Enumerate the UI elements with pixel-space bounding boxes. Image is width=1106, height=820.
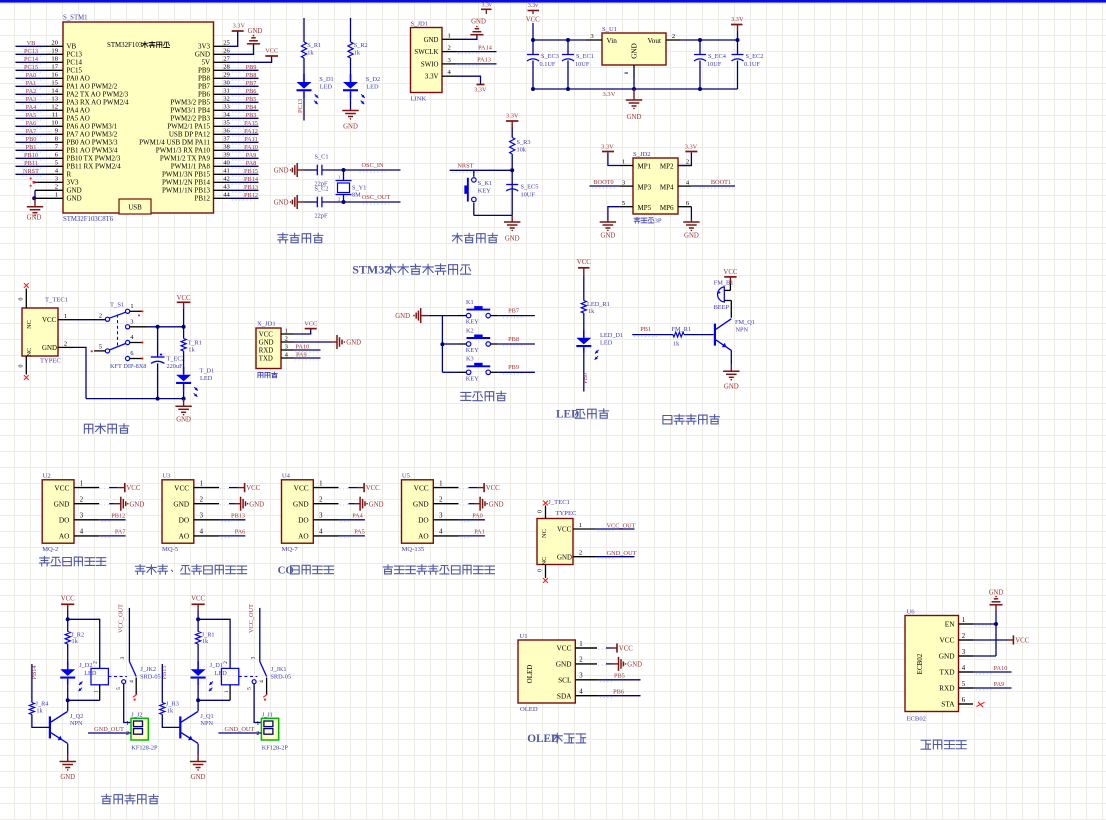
power symbol VCC of buzzer circuit (723, 269, 737, 284)
svg-text:PB6: PB6 (246, 88, 257, 95)
wire U6 VCC pin to VCC power (973, 626, 1013, 640)
S_STM1 inner pin name labels (67, 43, 211, 203)
svg-text:VCC: VCC (294, 483, 309, 492)
svg-text:12: 12 (51, 104, 58, 111)
pin 28 of S_STM1 with wire and net label PB9 (214, 64, 259, 73)
wire with net label PB0 below LED_D1 (582, 354, 589, 392)
svg-text:S_EC5: S_EC5 (521, 184, 539, 191)
svg-text:3.3V: 3.3V (506, 112, 519, 119)
pin 42 of S_STM1 with wire and net label PB14 (214, 176, 259, 185)
pin 10 (PA6 AO PWM3/1) of S_STM1 with wire and net label PA6 (16, 120, 64, 128)
svg-text:3.3V: 3.3V (474, 87, 487, 94)
svg-text:GND: GND (274, 200, 289, 207)
svg-text:35: 35 (223, 120, 230, 127)
svg-text:PA4 AO: PA4 AO (67, 107, 90, 115)
svg-text:S_EC3: S_EC3 (541, 53, 559, 60)
svg-text:1: 1 (962, 617, 965, 624)
wire with net label PB9 at K3 (498, 364, 535, 374)
connector S_JD1 (LINK) (411, 20, 456, 102)
pin 13 (PA3 RX AO PWM2/4) of S_STM1 with wire and net label PA3 (16, 96, 64, 104)
ground symbol GND at S_STM1 pin 26 (247, 28, 263, 44)
svg-text:AO: AO (418, 532, 429, 541)
wire switch pin3 to VCC node (130, 325, 186, 329)
svg-text:PA4: PA4 (352, 513, 363, 520)
svg-text:10UF: 10UF (707, 61, 722, 68)
svg-text:STM32F103C8T6: STM32F103C8T6 (63, 216, 114, 223)
svg-text:1: 1 (319, 480, 322, 487)
svg-text:STM32: STM32 (352, 263, 390, 277)
svg-text:TYPEC: TYPEC (556, 510, 577, 517)
svg-text:VCC: VCC (54, 483, 69, 492)
svg-text:PA2 TX AO PWM2/3: PA2 TX AO PWM2/3 (67, 91, 129, 99)
svg-text:OSC_IN: OSC_IN (361, 162, 383, 169)
svg-text:30: 30 (223, 80, 230, 87)
svg-text:DO: DO (418, 516, 429, 525)
svg-text:GND: GND (249, 501, 264, 508)
section title LED灯电路 (556, 409, 608, 421)
svg-text:38: 38 (223, 144, 230, 151)
svg-text:PA6: PA6 (26, 120, 37, 127)
svg-text:PC13: PC13 (67, 51, 83, 59)
capacitor S_C1 22pF (304, 154, 329, 188)
svg-text:PA1: PA1 (474, 529, 485, 536)
svg-text:MP3: MP3 (638, 183, 652, 191)
pin 38 of S_STM1 with wire and net label PA10 (214, 144, 259, 153)
svg-text:PB13: PB13 (231, 513, 245, 520)
wire with net label NRST (450, 162, 513, 172)
svg-text:J_Q1: J_Q1 (200, 713, 213, 720)
svg-text:17: 17 (51, 64, 58, 71)
svg-text:S_R2: S_R2 (354, 42, 368, 49)
svg-text:NC: NC (541, 557, 548, 566)
USB sub-box of S_STM1 (119, 199, 151, 214)
svg-text:PB12: PB12 (194, 195, 210, 203)
svg-text:27: 27 (223, 56, 230, 63)
power symbol VCC at U5 pin1 (484, 483, 500, 492)
wire U1 pin2 to ground (598, 664, 618, 665)
ground symbol GND of relay circuit (60, 755, 76, 781)
svg-text:GND: GND (27, 215, 42, 222)
svg-text:GND: GND (293, 499, 309, 508)
svg-text:U4: U4 (282, 473, 291, 480)
svg-text:28: 28 (223, 64, 230, 71)
svg-text:S_C2: S_C2 (315, 186, 329, 193)
ground symbol GND of button circuit (395, 308, 429, 323)
svg-text:STA: STA (941, 700, 955, 709)
svg-text:1: 1 (448, 32, 451, 39)
wire S_JD1 pin2 with net label PA14 (456, 44, 497, 53)
svg-text:16: 16 (51, 72, 58, 79)
wire S_C2 to crystal with net label OSC_OUT (322, 194, 401, 204)
section title 复位电路 (452, 233, 497, 243)
svg-text:U2: U2 (43, 473, 51, 480)
svg-text:VCC: VCC (61, 595, 75, 602)
sheet top border (0, 0, 1106, 3)
svg-text:3.3V: 3.3V (685, 143, 698, 150)
svg-text:J_TEC1: J_TEC1 (548, 499, 570, 506)
svg-text:KEY: KEY (478, 187, 491, 194)
svg-text:PWM2/1 PA15: PWM2/1 PA15 (167, 123, 210, 131)
section title 烟雾检测模块 (40, 556, 106, 565)
svg-text:VCC: VCC (304, 321, 317, 328)
svg-text:BOOT1: BOOT1 (711, 179, 731, 186)
svg-text:GND: GND (413, 499, 429, 508)
svg-text:GND: GND (627, 662, 642, 669)
svg-text:VCC: VCC (42, 317, 57, 324)
svg-text:DO: DO (59, 516, 70, 525)
svg-text:PA9: PA9 (296, 351, 307, 358)
wire X_JD1 pin1 to VCC power (294, 329, 311, 334)
svg-text:1: 1 (622, 159, 625, 166)
resistor FM_R1 1k (672, 326, 714, 347)
capacitor S_EC2 0.1UF (732, 40, 764, 89)
svg-text:GND_OUT: GND_OUT (225, 726, 255, 733)
svg-text:3: 3 (120, 656, 126, 659)
wire with net label VCC_OUT at J_TEC1 pin1 (596, 522, 636, 531)
svg-text:4: 4 (319, 529, 323, 536)
power symbol VCC of power circuit (177, 295, 191, 327)
pin 30 of S_STM1 with wire and net label PB7 (214, 80, 259, 89)
switch pin6 stub with no-connect dot (130, 357, 144, 359)
DIP switch T_S1 KFT DIP-8X6 (99, 301, 147, 370)
svg-text:PA9: PA9 (246, 152, 257, 159)
pin 39 of S_STM1 with wire and net label PA9 (214, 152, 259, 161)
wire U1 pin1 to VCC power (598, 648, 617, 649)
section title STM32单片机最小系统 (352, 263, 470, 277)
wire emitter of J_Q1 to ground (197, 744, 199, 755)
pin 14 (PA2 TX AO PWM2/3) of S_STM1 with wire and net label PA2 (16, 88, 64, 96)
svg-text:J_R3: J_R3 (166, 700, 179, 707)
wire with net label GND_OUT to J_J2 pin2 (88, 726, 131, 733)
wire with net label PA6 at U3 pin4 (219, 529, 245, 538)
svg-text:R: R (67, 171, 72, 179)
svg-text:6: 6 (962, 697, 966, 704)
svg-text:NPN: NPN (736, 326, 749, 333)
svg-text:GND: GND (191, 774, 206, 781)
svg-text:1: 1 (126, 721, 129, 727)
pin 9 (PA7 AO PWM3/2) of S_STM1 with wire and net label PA7 (16, 128, 64, 136)
wire with net label PB13 at U3 pin3 (219, 513, 245, 522)
svg-text:EN: EN (945, 620, 955, 629)
IC U6 bluetooth module ECB02 (905, 609, 973, 723)
svg-text:GND: GND (67, 187, 82, 195)
ground symbol GND of reset circuit (504, 215, 520, 242)
svg-text:KFT DIP-8X8: KFT DIP-8X8 (110, 363, 146, 370)
svg-text:PWM1/2 TX PA9: PWM1/2 TX PA9 (160, 155, 211, 163)
svg-text:NRST: NRST (457, 162, 473, 169)
ground symbol GND of relay circuit (190, 755, 206, 781)
svg-text:4: 4 (579, 689, 583, 696)
wire T_TEC1 pin2 to ground rail (73, 347, 86, 398)
svg-text:PA10: PA10 (244, 144, 258, 151)
svg-text:VCC: VCC (366, 485, 380, 492)
svg-text:S_JD2: S_JD2 (633, 151, 651, 158)
pin 36 of S_STM1 with wire and net label PA12 (214, 128, 259, 137)
svg-text:VCC_OUT: VCC_OUT (248, 604, 255, 633)
svg-text:VCC: VCC (414, 483, 429, 492)
connector J_TEC1 (TYPEC power out) (537, 499, 596, 565)
svg-text:2: 2 (64, 341, 67, 348)
ground symbol GND above bluetooth module (989, 590, 1004, 611)
svg-text:LED: LED (320, 83, 333, 90)
svg-text:K2: K2 (466, 327, 474, 334)
svg-text:2: 2 (80, 497, 84, 504)
svg-text:J_JK2: J_JK2 (140, 666, 156, 673)
svg-text:ECB02: ECB02 (907, 715, 926, 722)
svg-text:AO: AO (179, 532, 190, 541)
svg-text:2: 2 (686, 159, 689, 166)
power symbol VCC at U1 pin1 (617, 643, 633, 652)
pin 6 (PB10 TX PWM2/3) of S_STM1 with wire and net label PB10 (16, 152, 64, 160)
svg-text:S_EC1: S_EC1 (576, 53, 594, 60)
svg-text:KF128-2P: KF128-2P (131, 744, 158, 751)
svg-text:PB10: PB10 (24, 152, 38, 159)
capacitor T_EC2 220uF (151, 327, 185, 399)
section title 电源电路 (84, 424, 128, 434)
wire with net label PA10 at U6 TXD (973, 665, 1012, 674)
svg-text:VCC: VCC (1015, 638, 1029, 645)
svg-text:2: 2 (579, 657, 583, 664)
section title OLED屏显示 (527, 733, 585, 745)
svg-text:PA3: PA3 (26, 96, 37, 103)
svg-text:PB5: PB5 (246, 96, 257, 103)
svg-text:PA5 AO: PA5 AO (67, 115, 90, 123)
svg-text:NPN: NPN (70, 720, 83, 727)
svg-text:GND: GND (395, 313, 410, 320)
svg-text:PA5: PA5 (26, 112, 37, 119)
svg-text:GND: GND (601, 233, 616, 240)
svg-text:13: 13 (51, 96, 58, 103)
svg-text:S_K1: S_K1 (478, 180, 492, 187)
svg-text:NPN: NPN (200, 720, 213, 727)
wire with net label PB1 (632, 326, 673, 336)
svg-text:S_D1: S_D1 (319, 76, 333, 83)
wire S_C1 to crystal with net label OSC_IN (322, 162, 401, 172)
relay J_JK1 SRD-05 coil (221, 661, 291, 700)
svg-text:2: 2 (439, 497, 443, 504)
svg-text:PB12: PB12 (244, 192, 258, 199)
wire U2 pin1 to VCC power (100, 488, 124, 489)
svg-text:3P: 3P (655, 218, 662, 225)
svg-text:2: 2 (448, 45, 451, 52)
svg-text:10k: 10k (517, 147, 527, 154)
pin 31 of S_STM1 with wire and net label PB6 (214, 88, 259, 97)
svg-text:T_R1: T_R1 (188, 339, 202, 346)
svg-text:VCC_OUT: VCC_OUT (606, 522, 635, 529)
wire with net label PC13 below S_D1 (297, 98, 304, 121)
svg-text:1k: 1k (36, 707, 43, 714)
pin 43 of S_STM1 with wire and net label PB13 (214, 184, 259, 193)
wire with net label GND_OUT to J_J1 pin2 (218, 726, 261, 733)
svg-text:3.3v: 3.3v (528, 3, 538, 9)
svg-text:TYPEC: TYPEC (40, 358, 61, 365)
svg-text:0.1UF: 0.1UF (744, 61, 760, 68)
svg-text:GND_OUT: GND_OUT (607, 550, 637, 557)
svg-text:SRD-05: SRD-05 (270, 674, 291, 681)
wire and ground symbol GND below S_D2 (342, 98, 358, 131)
pin 35 of S_STM1 with wire and net label PA15 (214, 120, 259, 129)
wire with net label PA1 at U5 pin4 (459, 529, 485, 538)
svg-text:2: 2 (92, 661, 98, 664)
svg-text:PA5: PA5 (354, 529, 365, 536)
svg-text:PWM1/1N PB13: PWM1/1N PB13 (162, 187, 211, 195)
svg-text:2: 2 (200, 497, 204, 504)
svg-text:PC13: PC13 (24, 48, 38, 55)
svg-text:T_TEC1: T_TEC1 (45, 297, 68, 304)
push button K3 KEY (442, 356, 498, 383)
svg-text:PB8: PB8 (246, 72, 257, 79)
capacitor S_C2 22pF (304, 186, 329, 220)
wire with net label BOOT0 at S_JD2 pin3 (590, 179, 620, 188)
wire S_JD1 pin1 to ground (456, 36, 477, 40)
svg-text:MP1: MP1 (638, 163, 652, 171)
svg-text:SWCLK: SWCLK (414, 49, 438, 56)
svg-text:PA12: PA12 (244, 128, 258, 135)
wire with net label PB5 at U1 pin3 (597, 673, 641, 682)
power symbol VCC of relay circuit J_JK2 (61, 595, 75, 610)
svg-text:GND: GND (195, 51, 210, 59)
svg-text:5: 5 (99, 343, 102, 350)
svg-text:OLED: OLED (526, 665, 534, 684)
power symbol VCC at U4 pin1 (364, 483, 380, 492)
gas sensor module U3 (MQ-5) (162, 473, 219, 554)
svg-text:GND: GND (176, 416, 191, 423)
svg-text:10UF: 10UF (575, 61, 590, 68)
svg-text:PA6 AO PWM3/1: PA6 AO PWM3/1 (67, 123, 118, 131)
wire emitter of J_Q2 to ground (67, 744, 69, 755)
svg-text:SCL: SCL (558, 676, 572, 685)
svg-text:PA10: PA10 (296, 343, 310, 350)
svg-text:PB7: PB7 (508, 308, 519, 315)
svg-text:4: 4 (259, 680, 265, 683)
wire with net label GND_OUT at J_TEC1 pin2 (596, 550, 637, 559)
svg-text:MP4: MP4 (660, 183, 674, 191)
svg-text:U1: U1 (520, 633, 528, 640)
pin 27 (5V) of S_STM1 wire to VCC power (214, 56, 272, 63)
svg-text:5: 5 (116, 687, 122, 690)
wire ground rail of power circuit (86, 397, 186, 401)
svg-text:PWM1/2N PB14: PWM1/2N PB14 (162, 179, 211, 187)
svg-text:6: 6 (130, 350, 133, 357)
svg-text:VCC: VCC (265, 48, 278, 55)
svg-text:X_JD1: X_JD1 (257, 321, 276, 328)
resistor J_R2 1k (65, 631, 84, 669)
svg-text:LED: LED (200, 375, 213, 382)
wire X_JD1 pin3 with net label PA10 (294, 343, 321, 352)
wire U2 pin2 to ground (100, 504, 120, 505)
wire with net label PA9 at U6 RXD (973, 681, 1012, 690)
svg-text:BEEP: BEEP (714, 304, 730, 311)
svg-text:S_Y1: S_Y1 (352, 185, 366, 192)
svg-text:2: 2 (962, 633, 966, 640)
resistor T_R1 1k (181, 327, 202, 375)
svg-text:PA6: PA6 (235, 529, 246, 536)
svg-text:15: 15 (51, 80, 58, 87)
svg-text:VCC: VCC (177, 295, 191, 302)
svg-text:T_D1: T_D1 (200, 368, 215, 375)
power symbol VCC above X_JD1 (304, 321, 317, 329)
terminal block J_J1 KF128-2P (256, 711, 288, 751)
svg-text:1k: 1k (673, 340, 680, 347)
power symbol 3.3v floating above GND (481, 3, 492, 14)
svg-text:GND: GND (471, 18, 486, 25)
section title 有害混合气体检测模块 (383, 565, 494, 574)
svg-text:AO: AO (298, 532, 309, 541)
svg-text:1: 1 (579, 522, 582, 529)
pin 25 (3V3) of S_STM1 wire to 3.3V power (214, 31, 238, 46)
svg-text:PA14: PA14 (478, 44, 493, 51)
svg-text:4: 4 (962, 665, 966, 672)
relay J_JK2 SRD-05 coil (91, 661, 161, 700)
svg-text:OSC_OUT: OSC_OUT (362, 194, 390, 201)
svg-text:PB1: PB1 (640, 326, 651, 333)
svg-text:PB7: PB7 (246, 80, 257, 87)
wire with net label PB6 at U1 pin4 (597, 689, 641, 698)
svg-text:3: 3 (579, 673, 583, 680)
power symbol VCC at U6 pin2 (1013, 635, 1029, 644)
power symbol 3.3v/VCC feeding regulator input (526, 3, 540, 24)
wire relay pin5 to terminal J_J2 (124, 684, 131, 723)
wire relay pin5 to terminal J_J1 (254, 684, 261, 723)
wire with net label BOOT1 at S_JD2 pin4 (691, 179, 735, 188)
svg-text:S_R3: S_R3 (517, 139, 531, 146)
svg-text:PB0 AO PWM3/3: PB0 AO PWM3/3 (67, 139, 118, 147)
svg-text:PA13: PA13 (477, 57, 491, 64)
svg-text:26: 26 (223, 48, 230, 55)
svg-text:S_EC2: S_EC2 (746, 53, 764, 60)
capacitor S_EC4 10UF (694, 40, 727, 89)
svg-text:44: 44 (223, 192, 230, 199)
svg-text:GND: GND (631, 43, 639, 59)
svg-text:PA0 AO: PA0 AO (67, 75, 90, 83)
svg-text:3.3V: 3.3V (425, 74, 439, 81)
svg-text:LINK: LINK (411, 96, 427, 103)
pin 40 of S_STM1 with wire and net label PA8 (214, 160, 259, 169)
svg-text:PC14: PC14 (24, 56, 39, 63)
svg-text:4: 4 (200, 529, 204, 536)
wire with net label PA0 at U5 pin3 (459, 513, 485, 522)
capacitor S_EC5 10UF (506, 184, 538, 199)
power symbol 3.3V of reset circuit (506, 112, 519, 127)
svg-text:0: 0 (538, 569, 544, 572)
svg-text:DO: DO (298, 516, 309, 525)
svg-text:OLED: OLED (520, 706, 538, 713)
no-connect mark on relay pin4 (133, 694, 137, 700)
svg-text:11: 11 (52, 112, 58, 119)
svg-text:0: 0 (538, 510, 544, 513)
no-connect top pin 0 of J_TEC1 (538, 501, 548, 519)
svg-text:VCC: VCC (939, 636, 954, 645)
svg-text:2: 2 (223, 661, 229, 664)
svg-text:S_EC4: S_EC4 (708, 53, 727, 60)
svg-text:PA9: PA9 (994, 681, 1005, 688)
svg-text:3: 3 (200, 513, 204, 520)
svg-text:PB6: PB6 (613, 689, 624, 696)
svg-text:PA7: PA7 (26, 128, 37, 135)
svg-text:43: 43 (223, 184, 230, 191)
svg-text:PWM1/3N PB15: PWM1/3N PB15 (162, 171, 211, 179)
wire S_JD2 pin2 to 3.3V (678, 153, 691, 166)
wire S_JD2 pin5 to ground (608, 207, 620, 220)
svg-text:3V3: 3V3 (67, 179, 80, 187)
pin 11 (PA5 AO) of S_STM1 with wire and net label PA5 (16, 112, 64, 120)
ground symbol GND below S_JD2 pin5 (600, 220, 616, 240)
wire bottom rail of reset circuit (474, 214, 512, 216)
svg-text:PC13: PC13 (297, 99, 304, 113)
svg-text:PA2: PA2 (26, 88, 37, 95)
svg-text:GND: GND (424, 37, 439, 44)
pin 26 (GND) of S_STM1 wire to ground (214, 45, 254, 55)
